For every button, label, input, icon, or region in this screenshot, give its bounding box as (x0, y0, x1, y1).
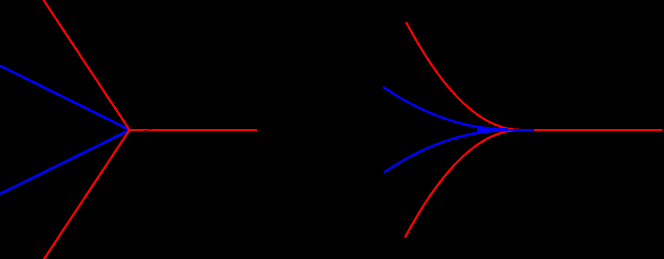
right diagram: blue merge wedge at convergence (477, 127, 508, 133)
left diagram: red equilibrium line (130, 129, 258, 131)
left diagram: aliasing notch on equilibrium line (lower nub) (144, 129, 147, 132)
right diagram: red trajectory (top, parabolic) with equilibrium tail (406, 22, 663, 130)
left diagram: blue trajectory (lower) (0, 130, 130, 194)
left diagram: blue trajectory (upper) (0, 66, 130, 130)
right diagram: blue trajectory (lower, parabolic) (384, 130, 508, 172)
right diagram: blue equilibrium tail (506, 129, 534, 131)
left diagram: red trajectory (bottom) (44, 130, 130, 259)
right diagram: blue trajectory (upper, parabolic) (383, 87, 508, 129)
right diagram: red trajectory (bottom, parabolic) with equilibrium tail (405, 130, 663, 238)
left diagram: aliasing notch on equilibrium line (upper nub) (148, 128, 151, 131)
left diagram: red trajectory (top) (44, 0, 130, 130)
